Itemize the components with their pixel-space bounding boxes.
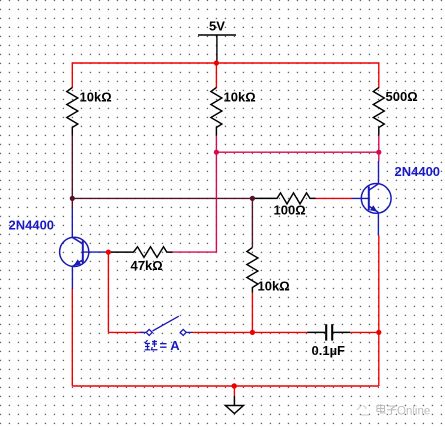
svg-text:= A: = A (160, 338, 181, 353)
resistor R4 47kΩ horizontal (110, 247, 173, 258)
junction dot bottom right (376, 330, 381, 335)
svg-text:10kΩ: 10kΩ (258, 279, 290, 294)
wire red R5 to Q2 base (316, 197, 353, 199)
wire crimson middle below R2 (215, 136, 217, 152)
resistor R5 100Ω horizontal (252, 193, 315, 204)
wire red switch feed horizontal (108, 331, 143, 333)
svg-text:500Ω: 500Ω (386, 89, 418, 104)
resistor R1 10kΩ left (67, 88, 78, 136)
wire red Q2 emitter down (378, 236, 380, 387)
junction dot VCC tap (214, 60, 219, 65)
junction dot maroon mid (250, 196, 255, 201)
junction dot bottom mid (250, 330, 255, 335)
wire red below R6 (251, 293, 253, 333)
junction dot crimson right (376, 150, 381, 155)
arrow Q2 emitter (370, 205, 378, 212)
wire VCC right drop (378, 62, 380, 88)
wire maroon left rail (Q1 collector net) (71, 136, 73, 209)
capacitor C1 0.1uF (308, 324, 351, 340)
transistor Q2 2N4400 (NPN, base left) (352, 161, 391, 236)
resistor R6 10kΩ vertical lower middle (247, 248, 258, 293)
svg-text:10kΩ: 10kΩ (224, 90, 256, 105)
wire red Q1 emitter to bottom (71, 289, 73, 386)
wire crimson to R4 right end (173, 251, 217, 253)
wire red bottom rail (72, 385, 379, 387)
svg-text:2N4400: 2N4400 (395, 164, 441, 179)
watermark icon (357, 405, 369, 415)
wire crimson below R3 (378, 136, 380, 161)
wire VCC top rail (72, 62, 379, 64)
arrow Q1 emitter (74, 259, 82, 266)
wire VCC left drop (71, 62, 73, 88)
resistor R2 10kΩ middle (211, 88, 222, 136)
resistor R3 500Ω right (373, 88, 384, 136)
wire red switch to C1 (193, 331, 308, 333)
wire VCC middle drop (215, 63, 217, 88)
svg-text:10kΩ: 10kΩ (80, 90, 112, 105)
power supply V1 5V bar (198, 35, 236, 62)
watermark text 电子 glyphs (377, 404, 397, 415)
transistor Q1 2N4400 (mirrored NPN, base right) (60, 209, 109, 289)
junction dot ground tap (232, 383, 237, 388)
svg-text:2N4400: 2N4400 (9, 218, 55, 233)
label S1 键 = A : 键 glyph (145, 340, 158, 350)
wire red switch feed vertical (107, 252, 109, 332)
wire crimson horizontal y=152 (216, 151, 378, 153)
wire maroon vertical to R6 (251, 198, 253, 247)
wire crimson vertical x=216 (215, 152, 217, 252)
wire maroon horizontal y=198 (72, 197, 252, 199)
junction dot Q1 base (106, 250, 111, 255)
switch S1 (140, 316, 193, 335)
junction dot maroon left (70, 196, 75, 201)
svg-text:Online: Online (397, 406, 430, 418)
svg-text:5V: 5V (209, 19, 225, 34)
junction dot crimson mid (214, 150, 219, 155)
svg-text:0.1µF: 0.1µF (312, 343, 346, 358)
wire red C1 to right rail (350, 331, 379, 333)
wire red ground stem (233, 386, 235, 396)
svg-text:47kΩ: 47kΩ (131, 258, 163, 273)
ground symbol (225, 396, 243, 413)
svg-text:100Ω: 100Ω (274, 203, 306, 218)
